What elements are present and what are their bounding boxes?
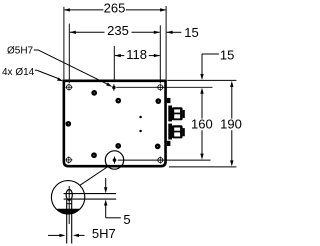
corner hole BR — [157, 157, 164, 164]
detail surface line upper — [64, 193, 117, 195]
dimension 190 — [220, 81, 242, 166]
dimension 5 (detail) — [104, 178, 131, 227]
corner hole BL — [65, 156, 72, 163]
dimension 15 right (leader) — [200, 47, 234, 80]
plate body outline — [64, 81, 166, 166]
connector U2 (lower) — [168, 124, 185, 140]
extension line E4 (right hole center) — [159, 25, 161, 83]
balloon circle around bottom 5H7 hole — [105, 151, 123, 169]
small hole dot 4 (on left edge) — [65, 121, 71, 127]
dimension 235 — [70, 23, 160, 38]
connector U1 (upper) — [168, 106, 185, 122]
detail hole wall left — [66, 200, 68, 244]
connector tab lower — [167, 141, 171, 146]
small hole dot 6 — [115, 143, 121, 149]
small hole dot 7 — [155, 144, 161, 150]
dimension 5H7 (detail width) — [48, 226, 116, 241]
leader balloon to detail circle — [80, 167, 108, 186]
svg-text:265: 265 — [104, 1, 126, 16]
bottom edge extension right — [169, 166, 237, 168]
hole centerline top row — [116, 86, 212, 88]
detail centerline — [68, 186, 70, 224]
tiny dot A — [139, 116, 142, 119]
extension line E5 (plate right) — [165, 6, 167, 79]
svg-text:Ø5H7: Ø5H7 — [7, 45, 34, 56]
detail section band (black chord segment) — [56, 209, 80, 214]
detail circle — [51, 181, 84, 214]
hole centerline bottom row — [118, 159, 211, 161]
svg-text:118: 118 — [126, 47, 147, 62]
dimension 15 top — [167, 25, 199, 40]
detail hole wall right — [71, 200, 73, 244]
extension line E3 (plate center) — [113, 46, 115, 80]
svg-text:15: 15 — [184, 25, 198, 40]
corner hole TL — [65, 84, 72, 91]
bottom center hole 5H7 — [113, 157, 117, 164]
label 4x Ø14 — [2, 67, 63, 81]
small hole dot 2 — [115, 98, 121, 104]
dimension 265 — [64, 1, 166, 16]
svg-text:160: 160 — [191, 117, 213, 132]
svg-text:190: 190 — [220, 117, 242, 132]
small hole dot 3 — [155, 98, 161, 104]
extension line E1 (plate left) — [63, 7, 65, 80]
small hole dot 1 — [91, 90, 97, 96]
small hole dot 5 — [91, 152, 97, 158]
svg-text:4x Ø14: 4x Ø14 — [2, 67, 35, 78]
svg-text:235: 235 — [107, 23, 129, 38]
label Ø5H7 — [7, 45, 112, 86]
svg-text:5H7: 5H7 — [92, 226, 116, 241]
top center hole 5H7 — [112, 84, 115, 91]
dimension 160 — [191, 88, 213, 160]
dimension 118 — [115, 47, 160, 62]
detail hole ellipse — [66, 190, 72, 201]
tiny dot B — [139, 130, 142, 133]
top edge extension right — [167, 79, 236, 81]
connector tab upper — [167, 98, 171, 103]
corner hole TR — [157, 84, 164, 91]
extension line E2 (left hole center) — [68, 24, 70, 83]
detail hole bottom — [67, 203, 72, 205]
svg-text:5: 5 — [123, 212, 130, 227]
detail surface line lower — [64, 198, 117, 200]
svg-text:15: 15 — [220, 47, 234, 62]
